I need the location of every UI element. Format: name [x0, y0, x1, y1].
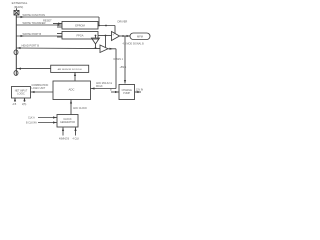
pin 4CLK	[75, 128, 77, 136]
svg-text:MFM: MFM	[137, 35, 143, 39]
amp A3 (right triangle)	[100, 45, 108, 53]
svg-text:+5M 1: +5M 1	[120, 66, 127, 69]
pin stubs U2	[57, 33, 62, 35]
svg-text:EPROM: EPROM	[75, 24, 85, 28]
svg-text:B CLK/XA: B CLK/XA	[26, 122, 37, 125]
wire bus vertical	[15, 15, 17, 75]
wire U1 output	[98, 25, 115, 27]
wire B CLK	[38, 122, 57, 124]
wire CLK A	[38, 117, 57, 119]
op-amp A1	[112, 32, 120, 41]
svg-text:A B: A B	[13, 103, 17, 106]
clock generator block U7	[57, 115, 78, 128]
net input logic block U5	[12, 87, 31, 99]
node tap T1	[14, 50, 18, 55]
svg-text:+: +	[112, 32, 114, 36]
wire HEAD PORT B	[17, 47, 101, 50]
svg-text:ADC: ADC	[69, 88, 75, 92]
wire ADC clock	[70, 100, 72, 115]
wire U2 output	[98, 35, 112, 37]
wire ADC to sensor	[74, 72, 76, 81]
label ADC MCLK	[96, 82, 112, 88]
wire to charge pump	[124, 36, 126, 84]
svg-text:4 CLK: 4 CLK	[73, 138, 80, 141]
wire sensor to bus	[17, 68, 51, 70]
svg-text:40MHZ B: 40MHZ B	[59, 138, 70, 141]
resistor block U1	[62, 22, 98, 30]
node EXTERNAL label	[12, 1, 28, 9]
wire into amp	[114, 26, 116, 35]
svg-text:AIR SENSOR 3/4 IN 100: AIR SENSOR 3/4 IN 100	[58, 68, 83, 71]
charge pump block U6	[119, 85, 135, 100]
wire pump left	[111, 91, 119, 93]
svg-text:12V IN: 12V IN	[136, 89, 144, 92]
svg-text:HEAD PORT B: HEAD PORT B	[22, 44, 40, 48]
connector J1 (crystal symbol)	[14, 8, 19, 15]
svg-text:LOGIC: LOGIC	[17, 93, 25, 96]
label mod signal	[123, 43, 145, 46]
block U2	[62, 32, 98, 40]
svg-text:FPGA: FPGA	[76, 34, 83, 38]
wire WRITE FUNCTION	[17, 16, 100, 18]
wire pump right 12V	[135, 91, 142, 93]
wire WRITE TRANSFER	[17, 24, 63, 26]
wire amp output	[120, 35, 131, 37]
label combination logic	[32, 84, 49, 90]
label Driver	[118, 20, 128, 24]
label drain net	[114, 58, 124, 61]
svg-text:RESET: RESET	[43, 19, 52, 23]
svg-text:2(5): 2(5)	[22, 103, 26, 106]
label +5M	[120, 66, 127, 69]
svg-text:WRITE PORT B: WRITE PORT B	[23, 32, 42, 36]
air sensor block U3	[51, 65, 89, 72]
svg-text:DRAIN 1: DRAIN 1	[114, 58, 124, 61]
ADC block U4	[53, 81, 91, 100]
wire	[95, 44, 97, 48]
pin stubs U1	[53, 23, 62, 25]
svg-text:LOGIC UNIT: LOGIC UNIT	[32, 87, 46, 90]
wire ADC to net input	[31, 91, 54, 93]
wire A3 output down to ADC	[108, 48, 116, 50]
svg-text:ADC CLOCK: ADC CLOCK	[73, 107, 87, 110]
svg-text:CLK A: CLK A	[28, 117, 35, 120]
pin 40MHz	[62, 128, 64, 136]
svg-text:GENERATOR: GENERATOR	[60, 121, 75, 124]
svg-text:4.5 MOD SIGNAL B: 4.5 MOD SIGNAL B	[123, 43, 145, 46]
svg-text:WRITE FUNCTION: WRITE FUNCTION	[23, 13, 46, 17]
pin stub P2	[24, 98, 26, 102]
pin stub P1	[14, 98, 16, 102]
svg-text:(MAIN): (MAIN)	[14, 5, 24, 9]
inverter A2 (down triangle)	[92, 38, 100, 44]
svg-text:MCLK: MCLK	[96, 85, 103, 88]
svg-text:PUMP: PUMP	[123, 92, 130, 95]
node tap T2	[14, 71, 18, 76]
output stadium MFM	[130, 33, 150, 40]
label RESET	[43, 19, 52, 23]
svg-text:DRIVER: DRIVER	[118, 20, 128, 24]
wire	[98, 17, 100, 26]
wire WRITE PORT B	[17, 35, 63, 37]
